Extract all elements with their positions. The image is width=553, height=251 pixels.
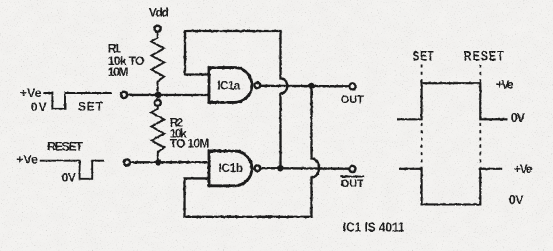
- svg-text:+Ve: +Ve: [514, 162, 533, 176]
- svg-text:SET: SET: [78, 100, 104, 114]
- svg-text:+Ve: +Ve: [16, 152, 38, 166]
- svg-text:+Ve: +Ve: [20, 86, 42, 100]
- svg-text:10M: 10M: [108, 65, 129, 79]
- svg-text:IC1a: IC1a: [217, 78, 240, 92]
- svg-text:OUT: OUT: [341, 94, 364, 106]
- svg-text:OUT: OUT: [341, 178, 364, 190]
- svg-text:+Ve: +Ve: [496, 77, 514, 91]
- svg-text:TO 10M: TO 10M: [170, 137, 210, 151]
- svg-text:0V: 0V: [31, 100, 48, 114]
- svg-text:0V: 0V: [62, 170, 77, 184]
- svg-text:RESET: RESET: [47, 140, 83, 154]
- svg-text:SET: SET: [413, 48, 435, 64]
- svg-text:Vdd: Vdd: [149, 6, 169, 20]
- svg-text:IC1 IS 4011: IC1 IS 4011: [343, 220, 405, 235]
- svg-text:0V: 0V: [511, 111, 526, 125]
- svg-text:IC1b: IC1b: [219, 161, 244, 175]
- svg-text:RESET: RESET: [464, 48, 505, 64]
- svg-text:0V: 0V: [509, 193, 524, 207]
